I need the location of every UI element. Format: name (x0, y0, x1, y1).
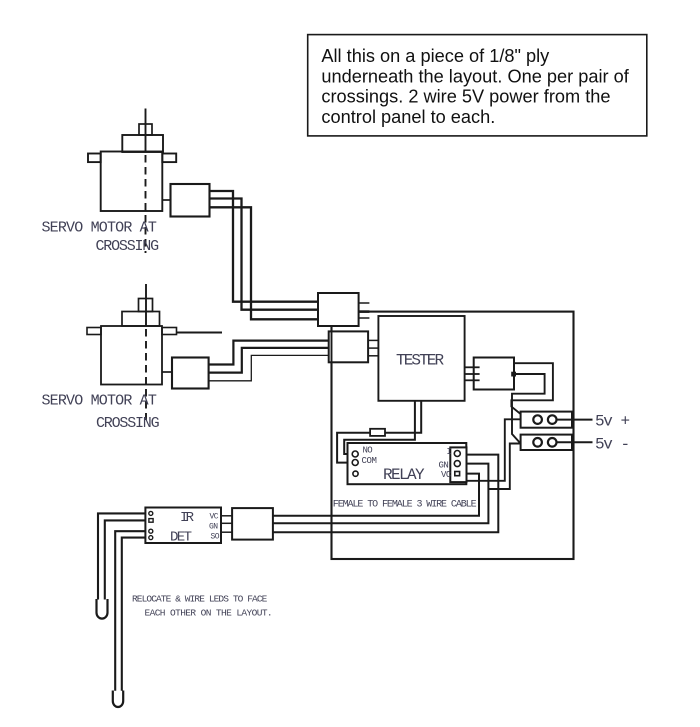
ply board outline (332, 312, 574, 559)
M2 output shaft square (139, 299, 153, 312)
terminal block TB1 (5v+) (521, 412, 572, 428)
IR LED2 pad A (149, 529, 153, 533)
connector B pin 1 (368, 339, 378, 341)
svg-text:FEMALE TO FEMALE 3 WIRE CABLE: FEMALE TO FEMALE 3 WIRE CABLE (333, 499, 477, 510)
inline jumper J1 on COM wire (370, 429, 385, 436)
svg-text:I: I (447, 447, 452, 457)
wire TB2 to 5v- supply lead (557, 441, 593, 443)
svg-text:RELOCATE & WIRE LEDS TO FACE: RELOCATE & WIRE LEDS TO FACE (132, 594, 268, 605)
relay GN pin (454, 461, 460, 467)
connector A pin 1 (359, 302, 370, 304)
connector B (servo2 receptacle) (329, 331, 379, 362)
wire IR pad to LED1 cathode (105, 520, 146, 599)
wire tester bottom to relay NO pad (344, 401, 415, 454)
M2 body (101, 326, 162, 385)
connector C (tester output plug) (474, 358, 514, 390)
M2 dashed centerline (145, 329, 147, 420)
IR GN pin (221, 522, 232, 524)
wire IR pad to LED1 anode (98, 513, 145, 599)
M2 left mounting tab (87, 328, 101, 335)
connector A pin 3 (359, 317, 370, 319)
label 5v - (595, 435, 630, 453)
svg-text:COM: COM (362, 456, 377, 466)
relay module K1 (348, 443, 467, 484)
svg-text:GN: GN (439, 461, 449, 471)
M2 arm line (177, 332, 223, 334)
junction dot at connector C output (511, 372, 516, 377)
M1 body (101, 152, 163, 212)
svg-text:+: + (621, 413, 631, 431)
IR SO pin (221, 531, 232, 533)
label servo motor 2 (42, 393, 160, 433)
wire 5v+ rail to relay VC pin (467, 419, 521, 481)
svg-text:All this on a piece of 1/8" pl: All this on a piece of 1/8" ply (321, 46, 550, 66)
wire TB1 to 5v+ supply lead (557, 419, 593, 421)
label 5v + (595, 413, 630, 431)
relay input pin header (450, 447, 466, 482)
wire relay GN pin to IR detector GN pin (273, 464, 489, 524)
servo motor M1 (88, 109, 176, 254)
M1 gear housing (122, 135, 163, 152)
IR LED1 pad A (149, 511, 153, 515)
svg-text:DET: DET (170, 530, 192, 546)
svg-text:control panel to each.: control panel to each. (321, 107, 495, 127)
svg-text:crossings. 2 wire 5V power fro: crossings. 2 wire 5V power from the (321, 87, 610, 107)
terminal block TB2 (5v-) (521, 435, 572, 450)
M1 output shaft stem (145, 109, 147, 153)
svg-text:CROSSING: CROSSING (96, 238, 160, 255)
tester pin 1 (465, 366, 480, 368)
svg-text:SO: SO (211, 532, 220, 541)
IR detector module U2 (145, 508, 232, 546)
connector D (IR detector plug) (232, 508, 273, 539)
svg-text:-: - (621, 435, 631, 453)
M2 gear housing (122, 312, 160, 327)
connector P1 (servo1 plug) (162, 184, 209, 217)
label relocate note (132, 594, 272, 619)
svg-text:CROSSING: CROSSING (96, 415, 160, 432)
tester pin 3 (465, 379, 480, 381)
connector B pin 2 (368, 347, 378, 349)
svg-text:GN: GN (209, 523, 218, 532)
M2 output shaft stem (145, 284, 147, 326)
wire relay VC pin to IR detector VC pin (273, 474, 479, 516)
svg-text:EACH OTHER ON THE LAYOUT.: EACH OTHER ON THE LAYOUT. (145, 608, 273, 619)
wire connector C pin1 to 5v+ terminal block (511, 363, 553, 414)
connector B pin 3 (368, 355, 378, 357)
wire servo1 plug pin2 to connector A pin2 (208, 199, 318, 310)
connector A (servo1 receptacle) (318, 293, 369, 326)
svg-text:5v: 5v (595, 413, 613, 431)
M1 dashed centerline (145, 155, 147, 253)
IR LED2 pad B (149, 536, 153, 540)
IR LED1 pad B (149, 519, 153, 523)
relay COM pad (352, 460, 358, 466)
ply board left edge segment over connector B (331, 331, 333, 362)
LED2 (113, 691, 123, 708)
M1 left mounting tab (88, 154, 101, 163)
svg-text:NO: NO (363, 446, 373, 456)
label servo motor 1 (42, 220, 160, 255)
LED1 (97, 599, 108, 619)
svg-text:5v: 5v (595, 435, 613, 453)
relay NC pad (353, 471, 358, 476)
svg-text:TESTER: TESTER (396, 352, 445, 370)
wire 5v- rail to relay GN pin (488, 444, 520, 490)
svg-text:SERVO MOTOR AT: SERVO MOTOR AT (42, 220, 157, 237)
relay VC pin (455, 472, 460, 476)
wire servo1 plug pin1 to connector A pin1 (208, 191, 318, 302)
wire servo1 plug pin3 to connector A pin3 (208, 207, 318, 319)
tester pin 2 (465, 373, 480, 375)
wire tester bottom to relay COM pad (337, 401, 421, 463)
wire connector C pin2 to 5v- terminal block (512, 374, 545, 444)
wire servo2 plug pin2 to connector B pin2 (209, 348, 329, 373)
IR VC pin (221, 515, 232, 517)
M1 right mounting tab (162, 154, 176, 163)
svg-text:VC: VC (210, 513, 219, 522)
relay NO pad (352, 451, 358, 457)
wire servo2 plug pin3 to connector B pin3 (209, 355, 329, 380)
wire IR pad to LED2 cathode (122, 538, 146, 691)
wire relay I pin to IR detector SO pin (273, 455, 498, 533)
note text (321, 46, 629, 127)
relay I pin (454, 451, 460, 457)
M2 right mounting tab (162, 328, 177, 335)
wire IR pad to LED2 anode (115, 531, 145, 691)
connector A pin 2 (359, 310, 370, 313)
svg-text:underneath the layout. One per: underneath the layout. One per pair of (321, 66, 629, 86)
svg-text:VC: VC (441, 470, 452, 480)
note box (308, 35, 647, 136)
svg-text:RELAY: RELAY (383, 466, 425, 484)
tester U1 (378, 316, 464, 401)
servo motor M2 (87, 284, 222, 420)
M1 output shaft square (139, 124, 152, 135)
svg-text:SERVO MOTOR AT: SERVO MOTOR AT (42, 393, 157, 410)
connector P2 (servo2 plug) (162, 358, 209, 389)
wire servo2 plug pin1 to connector B pin1 (209, 341, 329, 365)
